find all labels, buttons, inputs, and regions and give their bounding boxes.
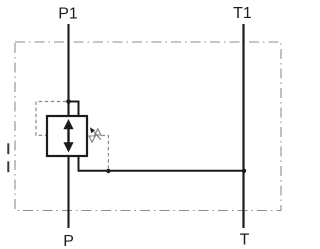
wire T1 down to T: [242, 24, 244, 228]
node B junction dot on drain/tank line: [106, 169, 110, 173]
svg-text:P1: P1: [58, 6, 78, 23]
adjustment arrowhead: [90, 127, 95, 133]
adjustable spring zigzag (lower triangle): [89, 136, 95, 142]
pilot line (dashed) from node A to valve left side: [36, 102, 67, 136]
svg-text:P: P: [63, 233, 74, 249]
adjustment arrow shaft: [94, 132, 101, 140]
edge mark I (lower): [7, 161, 9, 172]
wire branch from node A into valve top: [69, 102, 79, 117]
node C junction dot at T line: [242, 169, 246, 173]
svg-text:T: T: [240, 232, 250, 249]
wire valve outlet down to P: [67, 156, 69, 228]
drain line (dashed) from spring to node B: [102, 136, 109, 169]
valve arrowhead up: [63, 119, 73, 129]
wire branch from valve bottom to T line: [79, 156, 245, 171]
valve flow double arrow shaft: [67, 126, 69, 146]
adjustable spring zigzag (upper triangle): [95, 129, 101, 135]
valve arrowhead down: [63, 142, 73, 152]
edge mark I (upper): [7, 143, 9, 154]
boundary (dash-dot enclosure): [15, 42, 281, 211]
node A junction dot on P line: [66, 99, 71, 104]
wire P1 down to valve inlet: [67, 24, 69, 116]
svg-text:T1: T1: [233, 5, 252, 22]
relief valve V1 body: [47, 116, 87, 156]
